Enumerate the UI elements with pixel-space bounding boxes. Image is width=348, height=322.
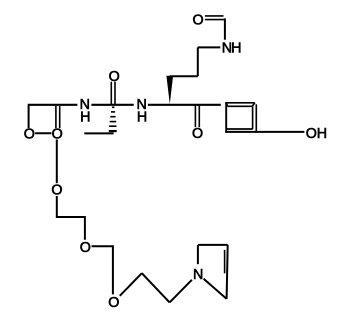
dioxetane ring left C-O bond — [28, 105, 30, 128]
ethyl C-C bond — [84, 132, 113, 134]
benzene ring top outer edge — [225, 102, 255, 104]
pyrroline ring C=C inner line — [224, 250, 226, 273]
PEG chain O-CH2-CH2 polyline — [57, 196, 85, 240]
dioxetane ring O-O bond — [35, 132, 51, 134]
svg-text:O: O — [109, 69, 120, 85]
svg-text:O: O — [192, 13, 203, 29]
benzene ring top-left chamfer — [226, 103, 227, 106]
benzene ring (collapsed) — [225, 103, 256, 132]
benzene ring left edge — [225, 103, 227, 132]
svg-text:O: O — [51, 182, 62, 198]
svg-text:O: O — [192, 126, 203, 142]
zigzag bond CH2 to ring N — [170, 280, 192, 303]
pyrroline ring N-C bond — [197, 245, 199, 264]
amide C=O double bond line 1 — [110, 82, 112, 105]
benzene ring top-right chamfer — [252, 103, 255, 107]
bond NH up to formyl C — [224, 18, 226, 39]
svg-text:NH: NH — [222, 40, 241, 56]
pyrroline ring top C-C bond — [198, 244, 228, 246]
zigzag bond CH2 to CH2 — [142, 273, 170, 302]
svg-text:O: O — [52, 127, 63, 143]
zigzag bond O to CH2 — [120, 273, 142, 296]
PEG chain O-CH2-CH2 polyline 2 — [92, 246, 113, 294]
wire backbone middle segment (N1 to N2) — [91, 104, 133, 106]
benzene ring bottom outer edge and bond to OH — [225, 131, 304, 133]
ketone C=O double bond line 2 — [198, 105, 200, 127]
solid wedge bond (stereocenter up) — [166, 76, 173, 104]
svg-text:O: O — [80, 240, 91, 256]
wire backbone left segment (dioxetane top edge to N1) — [28, 104, 78, 106]
hashed wedge bond (stereocenter down) — [109, 107, 117, 131]
benzene ring right outer edge — [255, 104, 257, 132]
ketone C=O double bond line 1 — [194, 105, 196, 127]
svg-text:OH: OH — [306, 126, 327, 142]
amide C=O double bond line 2 — [114, 82, 116, 105]
pyrroline ring C-N bond — [204, 279, 227, 299]
svg-text:H: H — [80, 110, 90, 126]
benzene ring bottom inner edge — [227, 128, 253, 130]
pyrroline ring C=C outer line — [227, 245, 228, 299]
svg-text:O: O — [108, 295, 119, 311]
svg-text:O: O — [24, 127, 35, 143]
benzene ring right inner edge — [252, 106, 254, 129]
wire backbone right segment (N2 through stereocenter and ketone C to ring) — [148, 104, 221, 106]
benzene ring top inner edge — [228, 105, 253, 107]
formyl C=O double bond line 2 — [205, 15, 224, 17]
dioxetane ring C=O double bond line 1 — [55, 106, 57, 128]
PEG chain O-C bond below dioxetane — [56, 140, 58, 184]
dioxetane ring C=O double bond line 2 — [59, 106, 61, 128]
side chain bond to formamide NH — [198, 46, 221, 48]
side chain vertical bond — [197, 47, 199, 76]
formyl C=O double bond line 1 — [205, 19, 225, 21]
svg-text:N: N — [193, 267, 203, 283]
side chain bond from wedge top to corner — [170, 75, 198, 77]
svg-text:H: H — [137, 110, 147, 126]
